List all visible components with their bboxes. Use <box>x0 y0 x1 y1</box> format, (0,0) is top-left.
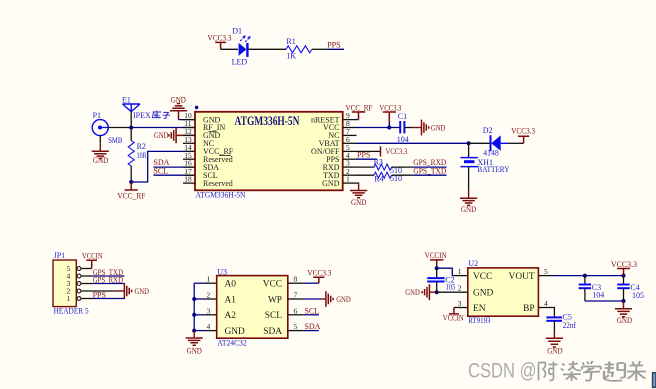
svg-text:5: 5 <box>294 322 298 331</box>
power port VCC3.3 (pin 5 ON/OFF) <box>356 146 408 156</box>
label IPEX座子 <box>133 111 170 120</box>
capacitor C3 <box>579 276 605 301</box>
net label GPS_TXD (JP1 pin4) <box>81 268 124 277</box>
power port VCC3.3 (U3 pin8) <box>303 269 331 284</box>
svg-text:GND: GND <box>473 289 494 299</box>
net label SCL (U3 pin6) <box>303 306 319 315</box>
net label GPS_RXD <box>413 158 446 167</box>
pin 4 PPS <box>326 151 356 164</box>
svg-text:E1: E1 <box>122 95 131 104</box>
svg-text:IPEX: IPEX <box>133 111 151 120</box>
wire node to D2 <box>469 142 490 144</box>
wire pin 6 VBAT to battery node <box>356 142 469 144</box>
svg-text:105: 105 <box>446 282 456 291</box>
svg-text:PPS: PPS <box>93 290 106 299</box>
svg-text:8: 8 <box>294 275 298 284</box>
ground (pin 1) <box>350 183 367 207</box>
ground (U2 pin2, sideways left) <box>405 284 436 300</box>
svg-text:VCC3.3: VCC3.3 <box>611 260 637 269</box>
junction (U3 pin4) <box>192 329 196 333</box>
pin 8 VCC (U3) <box>263 275 304 290</box>
svg-text:RT9193: RT9193 <box>468 316 490 325</box>
net label PPS (pin 4) <box>356 151 377 160</box>
svg-text:GPS_RXD: GPS_RXD <box>93 275 124 284</box>
pin 17 SCL <box>183 167 218 180</box>
pin 1 GND <box>322 175 356 188</box>
wire C3/C4 bottoms <box>585 300 624 302</box>
power port VCC3.3 (VOUT) <box>611 260 637 276</box>
svg-text:10R: 10R <box>137 151 147 160</box>
svg-text:U3: U3 <box>217 268 227 277</box>
pin 7 WP (U3) <box>268 291 303 306</box>
svg-text:VCCIN: VCCIN <box>443 314 464 323</box>
svg-text:1: 1 <box>346 175 350 184</box>
svg-text:PPS: PPS <box>327 41 340 50</box>
svg-text:VCC3.3: VCC3.3 <box>386 147 408 156</box>
svg-text:1K: 1K <box>286 52 296 61</box>
pin 4 (JP1) <box>67 272 81 281</box>
svg-text:VOUT: VOUT <box>509 272 535 282</box>
pin 11 RF_IN <box>183 119 225 132</box>
power port VCCIN (JP1 pin5) <box>81 251 103 268</box>
wire R1 to PPS <box>312 48 327 50</box>
svg-text:P1: P1 <box>93 111 101 120</box>
svg-text:GND: GND <box>93 156 108 165</box>
svg-text:A1: A1 <box>225 295 237 305</box>
svg-text:VCC_RF: VCC_RF <box>117 192 146 201</box>
pin 5 VOUT (U2) <box>509 267 553 282</box>
svg-text:HEADER 5: HEADER 5 <box>54 307 89 316</box>
pin 9 nRESET <box>311 111 356 124</box>
wire P1 to junction <box>108 127 131 129</box>
svg-text:WP: WP <box>268 295 282 305</box>
pin 7 NC <box>328 127 356 140</box>
pin 2 (JP1) <box>67 287 81 296</box>
svg-text:7: 7 <box>294 291 298 300</box>
svg-text:18: 18 <box>184 175 192 184</box>
net label GPS_RXD (JP1 pin3) <box>81 275 124 284</box>
power port VCCIN (U2 top) <box>425 251 447 268</box>
svg-text:3: 3 <box>458 299 462 308</box>
svg-text:VCC_RF: VCC_RF <box>346 103 373 112</box>
net label PPS (JP1 pin1) <box>81 290 124 299</box>
svg-text:VCC3.3: VCC3.3 <box>379 103 401 112</box>
svg-text:VCC: VCC <box>473 272 492 282</box>
net label SDA (U3 pin5) <box>303 322 320 331</box>
pin 16 SDA <box>183 159 219 172</box>
resistor R4 <box>356 172 402 183</box>
wire D2 to VCC3.3 <box>508 142 524 144</box>
svg-text:D1: D1 <box>232 26 242 35</box>
pin 3 A2 (U3) <box>194 306 236 321</box>
svg-text:LED: LED <box>232 57 248 66</box>
power port VCCIN (U2 EN) <box>443 308 464 323</box>
junction (C4 bottom) <box>622 299 626 303</box>
svg-text:1: 1 <box>458 267 462 276</box>
svg-text:SCL: SCL <box>153 166 168 175</box>
pin 2 GND (U2) <box>454 284 494 299</box>
svg-text:GND: GND <box>225 327 246 337</box>
svg-text:3: 3 <box>207 306 211 315</box>
svg-text:EN: EN <box>473 304 486 314</box>
power port VCC3.3 (D2) <box>511 126 535 143</box>
svg-text:ATGM336H-5N: ATGM336H-5N <box>196 191 246 200</box>
ground (C1, sideways) <box>404 120 445 136</box>
wire R3 to GPS_RXD <box>392 166 414 168</box>
svg-text:C1: C1 <box>398 112 407 121</box>
svg-text:SDA: SDA <box>304 322 320 331</box>
svg-text:ATGM336H-5N: ATGM336H-5N <box>235 113 300 128</box>
ground (above pin10, inverted) <box>170 96 196 120</box>
svg-text:JP1: JP1 <box>54 251 66 260</box>
wire VCCIN to pin1 <box>437 268 454 275</box>
net label SCL (left) <box>153 166 195 175</box>
pin 1 (JP1) <box>67 294 81 303</box>
power port VCC3.3 (pin 8) <box>379 103 401 127</box>
pin 18 Reserved <box>183 175 233 188</box>
junction (R2 bottom) <box>129 180 133 184</box>
junction (C3 top) <box>583 274 587 278</box>
IC U3 AT24C32 body <box>217 268 288 348</box>
svg-text:1: 1 <box>67 294 71 303</box>
svg-text:U2: U2 <box>468 259 478 268</box>
pin 4 GND (U3) <box>194 322 245 337</box>
svg-text:4: 4 <box>207 322 211 331</box>
junction (VCCIN node) <box>435 266 439 270</box>
pin 2 TXD <box>323 167 356 180</box>
svg-text:VCC3.3: VCC3.3 <box>208 34 232 43</box>
pin 10 GND <box>183 111 221 124</box>
svg-text:2: 2 <box>458 284 462 293</box>
svg-text:GND: GND <box>322 179 340 188</box>
svg-text:6: 6 <box>294 306 298 315</box>
svg-text:104: 104 <box>592 291 604 300</box>
svg-text:VCC: VCC <box>263 280 282 290</box>
wire C2 node to pin2 <box>437 291 454 293</box>
ground (JP1 pin2, sideways) <box>81 283 149 299</box>
pin 1 A0 (U3) <box>194 275 236 290</box>
svg-text:GND: GND <box>154 131 169 140</box>
power port VCC_RF (left) <box>117 182 146 201</box>
svg-text:GND: GND <box>336 295 351 304</box>
ground (U3) <box>186 331 203 356</box>
diode D2 4148 <box>483 126 508 158</box>
connector P1 SMB <box>92 111 122 145</box>
pin 3 RXD <box>323 159 356 172</box>
svg-text:GND: GND <box>187 346 202 355</box>
svg-text:R3: R3 <box>374 158 383 167</box>
svg-text:4: 4 <box>544 299 548 308</box>
svg-text:1: 1 <box>207 275 211 284</box>
svg-text:VCCIN: VCCIN <box>82 251 103 260</box>
svg-text:VCC3.3: VCC3.3 <box>511 126 535 135</box>
junction (U3 pin2) <box>192 297 196 301</box>
svg-text:A2: A2 <box>225 311 237 321</box>
resistor R1 <box>286 37 312 61</box>
net label PPS (LED) <box>327 41 344 50</box>
watermark CSDN <box>468 360 537 383</box>
wire R2 bottom to pin14 VCC_RF <box>131 151 195 182</box>
capacitor C5 <box>546 308 576 332</box>
svg-text:SDA: SDA <box>263 327 282 337</box>
junction (antenna node) <box>129 126 133 130</box>
svg-text:GND: GND <box>547 347 562 356</box>
IC U2 RT9193 body <box>468 259 539 325</box>
pin 12 GND <box>183 127 221 140</box>
svg-text:GND: GND <box>135 287 150 296</box>
IC U? ATGM336H-5N body <box>195 112 343 200</box>
ground (C4) <box>615 301 632 325</box>
net label GPS_TXD <box>413 166 446 175</box>
svg-text:104: 104 <box>397 135 409 144</box>
pin 1 VCC (U2) <box>454 267 492 282</box>
pin 5 SDA (U3) <box>263 322 303 337</box>
pin 4 BP (U2) <box>523 299 552 314</box>
wire VCC3.3 to LED D1 <box>221 48 238 50</box>
svg-text:BP: BP <box>523 304 534 314</box>
pin 13 NC <box>183 135 214 148</box>
LED D1 <box>239 35 251 57</box>
pin 5 (JP1) <box>67 264 81 273</box>
antenna E1 <box>122 95 140 111</box>
junction (U3 pin3) <box>192 313 196 317</box>
ground (P1) <box>92 136 109 165</box>
wire antenna drop <box>130 112 132 128</box>
junction (C2/GND node) <box>435 290 439 294</box>
wire LED to R1 <box>248 48 286 50</box>
ground (U3 WP, sideways) <box>303 291 351 307</box>
svg-text:SCL: SCL <box>304 306 319 315</box>
ground (C5) <box>546 332 563 356</box>
pin 5 ON/OFF <box>311 143 356 156</box>
pin 2 A1 (U3) <box>194 291 236 306</box>
battery XH1 <box>460 143 509 174</box>
svg-text:105: 105 <box>632 291 644 300</box>
wire R4 to GPS_TXD <box>392 174 414 176</box>
capacitor C1 <box>397 112 409 144</box>
wire pin 8 to C1 <box>356 127 400 129</box>
svg-text:R4: R4 <box>374 175 383 184</box>
svg-text:5: 5 <box>544 267 548 276</box>
svg-text:GND: GND <box>405 288 420 297</box>
svg-text:VCC3.3: VCC3.3 <box>307 269 331 278</box>
svg-text:GND: GND <box>351 198 366 207</box>
corner blue square <box>653 373 656 388</box>
svg-text:SCL: SCL <box>265 311 282 321</box>
power port VCC3.3 (LED circuit) <box>208 34 232 50</box>
junction (C4 top) <box>622 274 626 278</box>
ground (battery) <box>460 167 477 214</box>
svg-text:GND: GND <box>461 205 476 214</box>
wire VOUT to VCC3.3 <box>552 275 623 277</box>
svg-text:22nf: 22nf <box>563 321 577 330</box>
svg-text:R1: R1 <box>286 37 295 46</box>
resistor R3 <box>356 158 402 175</box>
watermark 阿柒学起来 (hand strokes) <box>539 361 647 381</box>
svg-text:AT24C32: AT24C32 <box>217 339 247 348</box>
svg-text:GND: GND <box>431 123 446 132</box>
pin 3 (JP1) <box>67 279 81 288</box>
svg-text:SMB: SMB <box>108 136 122 145</box>
svg-text:PPS: PPS <box>357 151 370 160</box>
svg-text:CSDN @: CSDN @ <box>468 360 537 383</box>
capacitor C2 <box>427 268 455 292</box>
wire junction to pin11 RF_IN <box>131 127 195 129</box>
pin 6 SCL (U3) <box>265 306 304 321</box>
pin 3 EN (U2) <box>454 299 486 314</box>
svg-text:GPS_TXD: GPS_TXD <box>413 166 446 175</box>
wire U3 address bus vertical <box>193 283 195 330</box>
asterisk marker <box>195 106 198 109</box>
capacitor C4 <box>617 276 644 301</box>
net label SDA (left) <box>153 158 195 167</box>
junction (VBAT node) <box>467 141 471 145</box>
resistor R2 <box>128 128 147 183</box>
pin 14 VCC_RF <box>183 143 234 156</box>
junction (VCC3.3/pin8) <box>387 126 391 130</box>
svg-text:2: 2 <box>207 291 211 300</box>
pin 15 Reserved <box>183 151 233 164</box>
svg-text:GND: GND <box>617 316 632 325</box>
pin 8 VCC <box>323 119 356 132</box>
svg-text:A0: A0 <box>225 280 237 290</box>
ground (pin12, sideways) <box>154 128 196 144</box>
pin 6 VBAT <box>319 135 356 148</box>
connector JP1 HEADER 5 <box>53 251 89 315</box>
svg-text:VCCIN: VCCIN <box>425 251 447 260</box>
svg-text:Reserved: Reserved <box>203 179 233 188</box>
svg-text:4148: 4148 <box>483 149 499 158</box>
svg-text:BATTERY: BATTERY <box>477 165 509 174</box>
power port VCC_RF (pin 9) <box>346 103 373 119</box>
svg-text:D2: D2 <box>483 126 493 135</box>
